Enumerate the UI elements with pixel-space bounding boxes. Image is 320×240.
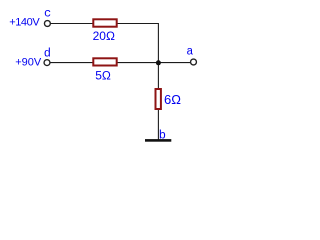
svg-text:c: c — [44, 7, 51, 21]
wire R1 to corner — [117, 23, 158, 25]
wire R3 to ground — [157, 110, 159, 140]
resistor R2 5ohm — [93, 58, 116, 82]
node a — [186, 45, 196, 65]
svg-text:6Ω: 6Ω — [164, 92, 181, 107]
svg-text:a: a — [186, 45, 193, 58]
svg-text:+140V: +140V — [9, 16, 40, 28]
node c — [44, 7, 51, 27]
svg-text:d: d — [44, 47, 51, 61]
wire R2 to node a — [117, 62, 190, 64]
node d — [44, 47, 51, 66]
svg-text:5Ω: 5Ω — [95, 68, 111, 82]
resistor R3 6ohm — [156, 89, 182, 109]
ground — [145, 139, 171, 142]
resistor R1 20ohm — [93, 19, 117, 43]
wire c to R1 — [51, 23, 93, 25]
wire corner down to R3 — [157, 23, 159, 90]
svg-text:20Ω: 20Ω — [93, 29, 115, 43]
junction — [156, 60, 161, 65]
wire d to R2 — [50, 62, 93, 64]
svg-text:+90V: +90V — [15, 57, 42, 69]
